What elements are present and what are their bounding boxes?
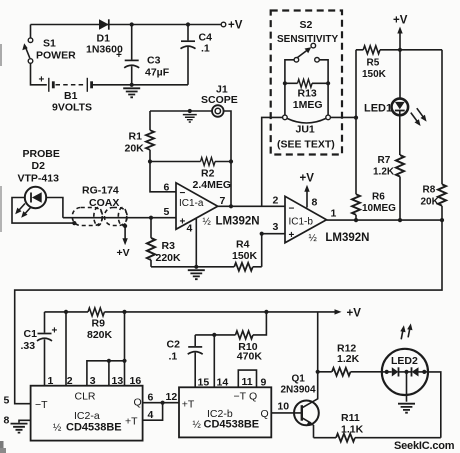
node link pin 13 [107, 359, 111, 363]
node C4 top [186, 22, 190, 26]
svg-text:4: 4 [148, 409, 154, 421]
probe D2 [12, 187, 74, 223]
wire emitter rail [314, 437, 441, 439]
svg-text:+: + [116, 50, 122, 61]
svg-text:2: 2 [273, 195, 279, 207]
svg-text:10: 10 [277, 401, 289, 413]
svg-text:R8: R8 [423, 185, 436, 196]
wire top rail [31, 24, 221, 26]
wire LED2 center tap to ground [406, 372, 408, 402]
label R13 1MEG [293, 88, 323, 112]
resistor R2 [201, 158, 216, 166]
wire IC1-a output to IC1-b pin 2 [218, 205, 285, 207]
label D1 1N3600 [86, 33, 123, 56]
ground under C3 [123, 88, 140, 97]
+V arrow lower [335, 308, 362, 320]
svg-text:+V: +V [228, 20, 243, 32]
svg-text:+V: +V [347, 308, 362, 320]
scan artifacts [0, 44, 6, 453]
node R1 bottom [148, 159, 152, 163]
dashed box S2 SENSITIVITY [271, 11, 342, 155]
svg-text:20K: 20K [421, 197, 440, 208]
node R12/collector [316, 370, 320, 374]
svg-text:+: + [39, 75, 45, 86]
svg-text:IC2-a: IC2-a [74, 410, 100, 422]
op-amp IC1-a [176, 183, 218, 230]
svg-text:+T: +T [182, 399, 195, 411]
svg-text:+V: +V [117, 247, 130, 259]
wire R13 to JU1 [285, 83, 328, 115]
svg-text:8: 8 [312, 197, 318, 209]
wire battery to C4 bottom [93, 84, 188, 86]
svg-text:R7: R7 [378, 155, 391, 166]
wire R4 up to pin 3 [261, 234, 263, 267]
label R5 150K [362, 57, 387, 80]
svg-text:6: 6 [164, 182, 170, 194]
label C1 .33 [21, 328, 38, 352]
svg-text:R2: R2 [201, 168, 215, 180]
resistor R10 [235, 331, 252, 339]
svg-text:−T: −T [35, 399, 48, 411]
ground at J1 [183, 115, 197, 122]
node Q-4-12 [161, 401, 165, 405]
svg-text:Q: Q [261, 408, 269, 420]
svg-text:R4: R4 [236, 238, 250, 250]
svg-text:1.2K: 1.2K [373, 167, 395, 178]
svg-text:LM392N: LM392N [325, 232, 369, 244]
svg-text:JU1: JU1 [296, 124, 315, 136]
svg-text:47µF: 47µF [145, 67, 170, 79]
wire pin 8 to ground [19, 420, 31, 423]
svg-text:2.4MEG: 2.4MEG [193, 179, 232, 191]
capacitor C4 [181, 25, 196, 85]
svg-text:150K: 150K [362, 69, 387, 80]
svg-text:8: 8 [4, 414, 10, 426]
svg-text:6: 6 [148, 391, 154, 403]
svg-text:5: 5 [164, 206, 170, 218]
wire R2 line [150, 161, 231, 163]
svg-text:+V: +V [300, 173, 315, 185]
transistor Q1 [294, 372, 319, 438]
svg-text:+: + [52, 326, 58, 337]
node JU1/R6 [354, 116, 358, 120]
svg-text:C1: C1 [24, 328, 38, 340]
svg-text:−T: −T [234, 391, 247, 403]
pin labels 15 14 11 9 [198, 376, 267, 388]
ground under LED2 [398, 404, 415, 413]
svg-text:.33: .33 [21, 340, 36, 352]
wire pin 2 [65, 312, 67, 386]
svg-text:R3: R3 [162, 240, 176, 252]
svg-text:5: 5 [4, 395, 10, 407]
LED1 emission arrows [411, 108, 427, 126]
label S2 SENSITIVITY [277, 19, 338, 45]
node C2/pin14 [212, 333, 216, 337]
node pin5/R3 [149, 216, 153, 220]
resistor R1 [146, 111, 154, 162]
wire pins 11-9 loop [238, 370, 256, 387]
battery B1 [39, 75, 92, 92]
svg-text:C3: C3 [147, 55, 161, 67]
jumper JU1 [283, 115, 331, 123]
svg-text:½: ½ [203, 217, 212, 228]
svg-text:SENSITIVITY: SENSITIVITY [277, 34, 338, 45]
svg-text:220K: 220K [156, 252, 182, 264]
node R13 left [283, 81, 287, 85]
label R4 150K [232, 238, 258, 261]
label R3 220K [156, 240, 182, 264]
node R13 right [326, 81, 330, 85]
svg-text:LED2: LED2 [391, 355, 418, 367]
resistor R12 [318, 368, 382, 376]
resistor R11 [336, 434, 355, 442]
svg-text:CD4538BE: CD4538BE [66, 422, 122, 434]
LED2 [382, 349, 428, 395]
svg-text:LED1: LED1 [364, 102, 392, 114]
wire C2 top / R10 line [195, 312, 266, 335]
svg-text:D2: D2 [32, 160, 46, 172]
node link pin 16 [122, 359, 126, 363]
svg-text:1: 1 [331, 207, 337, 219]
svg-text:1.2K: 1.2K [337, 353, 360, 365]
svg-text:+: + [289, 230, 295, 241]
svg-text:10MEG: 10MEG [362, 203, 396, 214]
wire R5 rail [356, 49, 442, 51]
svg-text:SeekIC.com: SeekIC.com [394, 440, 455, 452]
wire +V to R12/Q1 collector [317, 312, 319, 372]
IC IC2-b [179, 387, 271, 437]
+V arrow coax shield [117, 226, 130, 259]
IC IC2-a [31, 386, 143, 441]
svg-text:Q: Q [249, 391, 257, 403]
pin 8 +V arrow [300, 173, 315, 208]
label C4 .1 [199, 32, 213, 55]
node shield +V tap [123, 224, 127, 228]
wire pin 10 to Q1 base [271, 412, 302, 414]
wire S1 to battery [31, 63, 47, 85]
label Q1 2N3904 [281, 373, 316, 395]
wire left vertical R5 to R6 [355, 50, 357, 195]
label R12 1.2K [337, 343, 360, 366]
wire ground rail [151, 266, 262, 268]
node pin 7 [229, 204, 233, 208]
+V terminal top [221, 20, 243, 32]
svg-text:½: ½ [309, 233, 318, 244]
svg-text:S2: S2 [300, 19, 313, 31]
label R9 820K [87, 318, 113, 342]
ground at pin 8 [11, 424, 28, 433]
label B1 9VOLTS [52, 90, 92, 114]
label R6 10MEG [362, 192, 396, 215]
wire pin 13 [108, 361, 110, 386]
D2 light arrows [15, 204, 31, 218]
wire pin 4 jog [143, 403, 163, 421]
svg-text:LM392N: LM392N [216, 216, 260, 228]
svg-text:R9: R9 [92, 318, 106, 330]
resistor R13 [285, 79, 328, 87]
switch S2 [294, 43, 319, 62]
svg-text:CLR: CLR [75, 391, 96, 403]
pin labels 1 2 3 13 16 [48, 375, 142, 387]
label R7 1.2K [373, 155, 395, 178]
node pin 3 [260, 232, 264, 236]
svg-text:−: − [289, 204, 295, 215]
svg-text:R5: R5 [367, 57, 380, 68]
svg-text:12: 12 [166, 391, 178, 403]
label R1 20K [125, 131, 145, 155]
label RG-174 COAX [82, 185, 119, 210]
node output line dots [354, 218, 444, 222]
ground under pin 4 [188, 270, 205, 279]
capacitor C3 [116, 25, 139, 85]
wire J1 line [150, 110, 212, 112]
svg-text:½: ½ [193, 420, 202, 431]
svg-text:7: 7 [220, 195, 226, 207]
svg-text:COAX: COAX [89, 197, 119, 209]
resistor R4 [234, 263, 253, 271]
node shield left [72, 221, 76, 225]
wire IC1-b output [327, 219, 443, 221]
wire pin 5 / coax center [63, 217, 176, 219]
label C3 47uF [145, 55, 170, 79]
resistor R7 [396, 115, 404, 220]
node R9 right [122, 310, 126, 314]
resistor R8 right vertical [438, 50, 446, 220]
capacitor C2 [188, 335, 203, 387]
label R2 2.4MEG [193, 168, 232, 192]
coax RG-174 capsule 1 [72, 208, 102, 226]
svg-text:Q1: Q1 [292, 373, 306, 384]
svg-text:S1: S1 [43, 38, 56, 50]
svg-text:PROBE: PROBE [23, 148, 60, 160]
label 1/2 LM392N [203, 216, 260, 228]
node pin4 ground [194, 265, 198, 269]
wire LED2 right loop [428, 372, 441, 438]
resistor R9 [88, 308, 104, 316]
svg-text:11: 11 [242, 376, 253, 388]
coax RG-174 capsule 2 [105, 208, 128, 226]
svg-text:+: + [180, 217, 186, 228]
svg-text:2N3904: 2N3904 [281, 385, 316, 396]
node C3 bottom [130, 83, 134, 87]
svg-text:9VOLTS: 9VOLTS [52, 102, 92, 114]
+V arrow top right [393, 15, 408, 50]
node R2 right [229, 159, 233, 163]
label S1 POWER [36, 38, 76, 62]
label R8 20K [421, 185, 440, 208]
svg-text:820K: 820K [87, 329, 113, 341]
wire JU1 right to R6 node [330, 116, 356, 118]
svg-text:1.1K: 1.1K [341, 424, 364, 436]
wire J1 to pin7 vertical [223, 111, 231, 206]
svg-text:R11: R11 [341, 412, 360, 424]
wire pin 16 [124, 312, 126, 386]
svg-text:470K: 470K [237, 351, 263, 363]
LED2 emission arrows [400, 323, 412, 339]
node J1 ground tap [188, 109, 192, 113]
label R11 1.1K [341, 412, 364, 436]
node R5/LED1 top [398, 48, 402, 52]
svg-text:1MEG: 1MEG [293, 99, 323, 111]
svg-text:R13: R13 [298, 88, 317, 100]
wire S2 to R13 rail [285, 60, 328, 84]
op-amp IC1-b [285, 196, 327, 243]
label PROBE D2 VTP-413 [18, 148, 60, 185]
svg-text:R1: R1 [129, 131, 143, 143]
connector J1 [212, 105, 224, 117]
svg-text:IC1-b: IC1-b [289, 217, 314, 228]
svg-text:POWER: POWER [36, 50, 76, 62]
resistor R3 [147, 218, 155, 267]
wire pin 4 [195, 218, 197, 266]
wire pin 14 [213, 335, 215, 387]
svg-text:SCOPE: SCOPE [201, 94, 238, 106]
wire pin 6 Q to pin 12 [143, 402, 179, 404]
resistor R6 [352, 194, 360, 220]
LED1 [392, 50, 409, 115]
diode D1 [99, 19, 109, 29]
label C2 .1 [167, 339, 181, 363]
svg-text:4: 4 [187, 223, 193, 235]
wire pin 3 [262, 233, 285, 235]
wire +V rail lower [45, 311, 337, 313]
label R10 470K [237, 341, 263, 363]
svg-text:CD4538BE: CD4538BE [204, 419, 260, 431]
switch S1 [22, 25, 33, 64]
label 1/2 LM392N (IC1-b) [309, 232, 370, 244]
label JU1 (SEE TEXT) [277, 124, 335, 151]
node C3 top [130, 22, 134, 26]
svg-text:Q: Q [134, 397, 142, 409]
svg-text:RG-174: RG-174 [82, 185, 119, 197]
svg-text:IC1-a: IC1-a [179, 198, 204, 209]
svg-text:20K: 20K [125, 143, 145, 155]
svg-text:+T: +T [125, 416, 138, 428]
wire feedback down and across [15, 220, 442, 404]
wire pins 3-13-16 link [87, 361, 125, 386]
svg-text:.1: .1 [201, 43, 210, 55]
capacitor C1 [37, 312, 58, 386]
wire JU1 left to pin 2 line [262, 117, 283, 206]
svg-text:VTP-413: VTP-413 [18, 173, 60, 185]
label J1 SCOPE [201, 84, 238, 107]
svg-text:.1: .1 [169, 351, 178, 363]
resistor R5 [363, 46, 380, 54]
svg-text:C2: C2 [167, 339, 181, 351]
svg-text:3: 3 [273, 221, 279, 233]
node R10 top [264, 310, 268, 314]
svg-text:R6: R6 [372, 192, 385, 203]
svg-text:+V: +V [393, 15, 408, 27]
svg-text:½: ½ [53, 423, 62, 434]
svg-text:B1: B1 [64, 90, 78, 102]
wire pin 6 [150, 162, 176, 192]
svg-text:150K: 150K [232, 250, 258, 262]
svg-text:(SEE TEXT): (SEE TEXT) [277, 139, 335, 151]
node pin 2 top [64, 310, 68, 314]
